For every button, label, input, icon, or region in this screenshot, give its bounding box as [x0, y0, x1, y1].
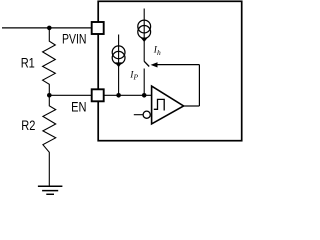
switch S1 (blade)	[144, 61, 149, 66]
svg-text:R2: R2	[21, 118, 35, 134]
wire: feedback vertical	[198, 65, 200, 106]
current source I1 (Ip pull-up)	[112, 35, 125, 96]
wire: switch lower contact to EN net	[143, 69, 145, 96]
wire: VIN input to PVIN pin	[2, 27, 92, 29]
svg-text:Ih: Ih	[153, 46, 161, 57]
wire: inverting input stub	[134, 114, 143, 116]
comparator U2	[152, 86, 184, 124]
svg-text:EN: EN	[71, 99, 86, 115]
ground	[38, 186, 63, 194]
IC body U1	[98, 1, 242, 140]
pin PVIN	[92, 22, 104, 34]
inverting input bubble	[143, 111, 150, 118]
wire: junction B to EN pin	[49, 94, 92, 96]
hysteresis symbol	[154, 99, 164, 110]
resistor R1	[43, 28, 56, 95]
node: Ih / EN junction	[142, 93, 147, 98]
node A: R1 / PVIN junction	[47, 26, 52, 31]
arrow: feedback drives switch	[151, 62, 158, 67]
node: Ip / EN junction	[116, 93, 121, 98]
svg-text:IP: IP	[129, 70, 138, 81]
wire: comparator output	[184, 105, 200, 107]
resistor R2	[43, 95, 56, 185]
wire: EN pin to comparator noninverting input	[105, 94, 152, 96]
current source I2 (Ih hysteresis)	[138, 9, 151, 62]
pin EN	[92, 89, 104, 101]
svg-text:PVIN: PVIN	[62, 31, 86, 47]
node B: R1 / R2 / EN junction	[47, 93, 52, 98]
wire: feedback horizontal to switch	[157, 64, 199, 66]
svg-text:R1: R1	[21, 55, 35, 71]
